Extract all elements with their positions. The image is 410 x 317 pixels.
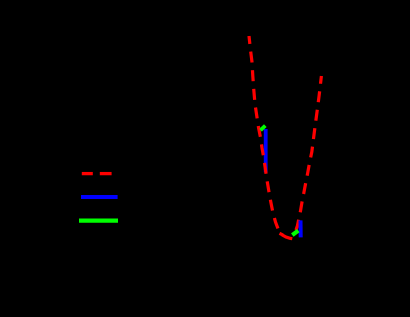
legend sample: blue solid line: [81, 195, 118, 199]
red trough dash left extension: [280, 233, 284, 235]
red dashed curve: left branch down into trough: [249, 36, 293, 239]
blue vertical segment (lower, near trough): [299, 220, 303, 237]
green tick (upper): [261, 126, 266, 131]
green tick (lower, near trough): [292, 231, 298, 236]
legend sample: red dashed line (dash 1): [82, 172, 93, 175]
red dashed curve: right branch from top down to trough: [294, 76, 321, 232]
blue vertical segment (upper): [264, 129, 268, 172]
legend sample: red dashed line (dash 2): [100, 172, 112, 175]
legend sample: green solid line: [79, 218, 118, 222]
